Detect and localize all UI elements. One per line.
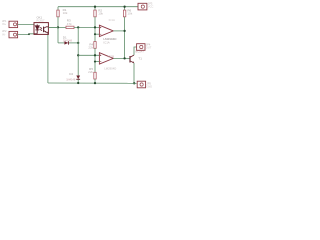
svg-text:IN-: IN-	[2, 32, 6, 36]
node junction rail R2	[94, 6, 96, 8]
node junction op-amp2 minus	[94, 61, 96, 63]
wire emitter down to rail	[133, 63, 135, 83]
wire opto collector to node A	[48, 26, 58, 28]
wire R1 top stub	[57, 7, 59, 10]
svg-text:10k: 10k	[127, 12, 132, 16]
node junction R5 rail	[94, 82, 96, 84]
node A junction	[57, 26, 59, 28]
svg-text:T1: T1	[138, 56, 142, 60]
wire D2 to ground rail	[77, 79, 79, 83]
node junction R3 branch	[77, 26, 79, 28]
node junction D2 rail	[77, 82, 79, 84]
svg-text:VCC: VCC	[148, 5, 154, 9]
diode D2	[66, 72, 80, 82]
svg-text:1N4148: 1N4148	[63, 38, 73, 42]
resistor R5	[88, 67, 96, 79]
resistor R1	[57, 8, 68, 17]
wire R2 bottom down	[94, 17, 96, 42]
svg-text:GND: GND	[146, 85, 152, 89]
svg-text:22k: 22k	[88, 70, 93, 74]
connector JP1 pin 2	[2, 29, 18, 38]
wire op-amp2 output to transistor base	[113, 57, 130, 59]
node junction op-amp2 input branch	[77, 54, 79, 56]
svg-text:10k: 10k	[98, 12, 103, 16]
node junction cathode wire	[28, 33, 30, 35]
svg-text:10k: 10k	[63, 11, 68, 15]
wire opto collector to node A to R3	[48, 26, 66, 28]
op-amp U1B	[99, 53, 116, 71]
wire diode to branch node	[69, 42, 78, 44]
ground rail bottom	[48, 82, 137, 84]
node junction output1	[123, 30, 125, 32]
svg-text:LM2904D: LM2904D	[104, 66, 116, 70]
node junction emitter rail	[133, 82, 135, 84]
wire R6 rail stub	[124, 7, 126, 10]
wire node A down	[57, 27, 59, 43]
transistor T1	[130, 49, 144, 63]
svg-text:IC1A: IC1A	[103, 40, 109, 44]
node junction op-amp2 plus	[94, 54, 96, 56]
wire R5 bottom to rail	[94, 79, 96, 83]
svg-text:PC817: PC817	[37, 19, 45, 23]
op-amp U1A	[99, 18, 117, 44]
connector JP3 supply	[138, 2, 154, 10]
resistor R4	[88, 42, 96, 50]
wire collector up	[134, 47, 137, 55]
resistor R3 horizontal	[66, 18, 74, 28]
wire R6 bottom down to outputs	[124, 17, 126, 59]
node junction op-amp1 plus	[94, 26, 96, 28]
wire op-amp2 minus stub	[95, 61, 99, 63]
wire R3 to op-amp input	[74, 26, 99, 28]
node junction rail R6	[123, 6, 125, 8]
wire op-amp1 minus stub	[95, 33, 99, 35]
svg-text:IC1A: IC1A	[109, 18, 115, 22]
wire emitter drop from optocoupler	[47, 34, 49, 83]
diode D1	[63, 35, 73, 44]
wire divider branch vertical	[77, 27, 79, 75]
wire to op-amp2 plus input	[78, 54, 99, 56]
wire JP1-2 to opto cathode	[18, 33, 34, 36]
wire top supply rail	[58, 6, 138, 8]
connector JP4 output	[137, 42, 152, 50]
resistor R2	[94, 8, 104, 16]
svg-text:OUT: OUT	[146, 45, 152, 49]
node junction op-amp1 minus	[94, 33, 96, 35]
node junction diode branch	[77, 42, 79, 44]
node junction output2	[123, 57, 125, 59]
wire R2 rail stub	[94, 7, 96, 10]
wire JP1-1 to opto anode	[18, 23, 34, 25]
svg-text:D2: D2	[69, 72, 73, 76]
svg-text:1N4148: 1N4148	[66, 78, 76, 82]
connector JP1 pin 1	[2, 19, 18, 28]
svg-text:IN+: IN+	[2, 22, 7, 26]
wire R1 bottom to node A	[57, 17, 59, 28]
svg-text:47k: 47k	[67, 22, 72, 26]
svg-text:22k: 22k	[88, 45, 93, 49]
resistor R6	[123, 8, 132, 16]
wire to diode D1	[58, 42, 64, 44]
svg-text:IC1B: IC1B	[108, 54, 114, 58]
optocoupler OK1	[34, 16, 48, 35]
connector JP5 ground	[137, 81, 152, 89]
wire R4 bottom down	[94, 48, 96, 72]
wire op-amp1 output	[113, 30, 124, 32]
